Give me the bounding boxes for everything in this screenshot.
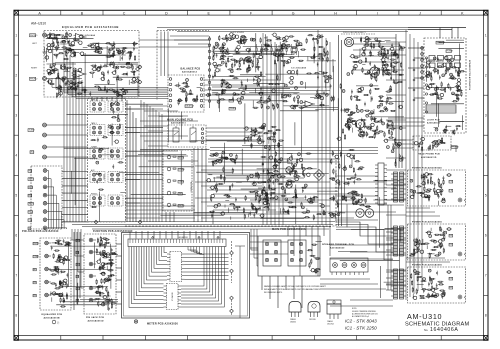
- svg-text:SPEAKER PCB A2015A5014: SPEAKER PCB A2015A5014: [468, 60, 471, 91]
- volume PCB pins: [201, 128, 203, 130]
- svg-text:1640406A: 1640406A: [430, 327, 458, 333]
- pin jack TAPE1: [43, 202, 47, 206]
- svg-text:A2015A5012: A2015A5012: [182, 71, 198, 74]
- pin jack lower PB1: [89, 250, 93, 254]
- power transistor TO-3 pair left: [356, 120, 364, 128]
- meter strip right pin drops: [188, 247, 196, 250]
- right mid horizontal wires: [335, 175, 378, 177]
- tuner input jack R: [43, 133, 47, 137]
- svg-text:POWER: POWER: [447, 51, 454, 53]
- signal bus vertical center-left: [140, 100, 142, 222]
- main PCB dashed edge top-left: [156, 31, 158, 101]
- svg-text:4: 4: [15, 153, 17, 157]
- power transistor TO-3 pair right: [356, 209, 364, 217]
- svg-text:2SD634: 2SD634: [290, 322, 296, 324]
- indicator LED PCB outline: [163, 150, 192, 211]
- muting transistors cluster: [255, 197, 256, 200]
- LED driver PHONO: [167, 203, 171, 207]
- TREBLE control boxed label: [229, 107, 235, 110]
- svg-text:A2015A5019B: A2015A5019B: [44, 317, 60, 320]
- LED driver TUNER: [167, 179, 171, 183]
- speaker relay RY1: [263, 240, 281, 266]
- lower pinjack extra parts: [104, 303, 105, 304]
- svg-text:BALANCE: BALANCE: [186, 105, 195, 108]
- stamp mark meter: [134, 320, 137, 323]
- relay driver cluster: [348, 125, 351, 128]
- svg-text:REPLACE SAFETY CRITICAL COMPON: REPLACE SAFETY CRITICAL COMPONENTS ONLY …: [264, 288, 320, 291]
- equalizer lower jack AUX: [45, 267, 49, 271]
- lower pinjack to meter wires: [116, 243, 122, 245]
- svg-text:B: B: [81, 11, 84, 15]
- signal bus junction dots: [140, 204, 141, 205]
- led column feed verticals: [165, 212, 167, 222]
- volume potentiometer left: [173, 128, 179, 142]
- equalizer extra parts right lower: [50, 83, 53, 84]
- svg-text:2: 2: [485, 73, 487, 77]
- svg-text:UNLESS OTHERWISE SPECIFIED:: UNLESS OTHERWISE SPECIFIED:: [352, 311, 377, 313]
- speaker line horizontals: [388, 117, 424, 119]
- svg-text:POWER: POWER: [179, 169, 186, 171]
- speaker PCB resistor parts: [458, 90, 461, 91]
- head phone attenuator parts: [422, 147, 423, 150]
- svg-text:RIGHT: RIGHT: [31, 68, 38, 70]
- vertical wires center bottom: [287, 226, 289, 236]
- power amp input pair cluster: [272, 126, 275, 127]
- svg-text:REC1: REC1: [29, 211, 34, 213]
- wires balance to trunk: [204, 79, 280, 81]
- tone amp IC2 cluster: [238, 41, 241, 44]
- edge connector column A2015A5016: [209, 36, 211, 108]
- svg-text:4: 4: [485, 153, 487, 157]
- svg-text:A2015A5011D: A2015A5011D: [421, 156, 437, 159]
- rail junction circles: [413, 59, 415, 61]
- pin jack IN: [43, 226, 47, 230]
- light PCB parts: [457, 126, 460, 127]
- power PCB 2 output box 1: [449, 234, 453, 237]
- grid ticks bottom: [60, 336, 62, 341]
- pin jack lower PB3: [89, 274, 93, 278]
- wire mesh center band: [138, 154, 186, 156]
- power transformer windings T2: [394, 226, 398, 256]
- head phone PCB outline: [413, 136, 451, 150]
- svg-text:SPEAKER TERMINAL PCB: SPEAKER TERMINAL PCB: [322, 243, 354, 246]
- svg-text:BALANCE PCB: BALANCE PCB: [181, 68, 201, 71]
- svg-text:3: 3: [485, 113, 487, 117]
- svg-text:J: J: [419, 11, 421, 15]
- svg-text:H: H: [334, 11, 337, 15]
- power PCB 1 fuse F1: [448, 174, 451, 177]
- svg-text:MAIN PCB A2015A5010A: MAIN PCB A2015A5010A: [272, 228, 306, 231]
- equalizer extra parts left half: [63, 40, 66, 43]
- speaker PCB inner pins: [425, 57, 427, 59]
- pin jack REC1: [43, 210, 47, 214]
- main pcb right vertical wires: [338, 35, 340, 226]
- power PCB 2 rectifier cluster: [412, 253, 415, 254]
- lower equalizer extra parts: [60, 299, 61, 302]
- meter PCB fan wiring right nested: [181, 247, 204, 286]
- output stage lower cluster: [258, 201, 260, 203]
- wires main to right rails: [386, 41, 406, 43]
- svg-text:PIN JACK PCB: PIN JACK PCB: [86, 316, 104, 319]
- svg-text:8: 8: [15, 314, 17, 318]
- svg-text:6: 6: [15, 234, 17, 238]
- display strip arrows: [152, 236, 154, 238]
- svg-text:SPEAKER SELECTOR: SPEAKER SELECTOR: [428, 60, 444, 63]
- svg-text:1: 1: [485, 33, 487, 37]
- junction diamond equalizer output R: [136, 79, 140, 83]
- power PCB 1 rectifier cluster: [428, 189, 431, 190]
- svg-text:LEFT: LEFT: [32, 43, 38, 45]
- svg-text:TAPE2: TAPE2: [29, 178, 34, 181]
- speaker relay RY2: [288, 240, 306, 266]
- main horizontal wire bus lower: [62, 221, 335, 223]
- svg-text:LED METER: LED METER: [178, 237, 188, 239]
- pin jack TAPE2: [43, 177, 47, 181]
- wires to power pcb 2: [386, 231, 393, 233]
- volume to bus verticals: [193, 148, 195, 222]
- diode bridge D1: [314, 170, 325, 181]
- pin jack to function wires: [62, 171, 88, 173]
- PHONO label right: [30, 77, 36, 80]
- svg-text:POWER PCB A2015A5060: POWER PCB A2015A5060: [412, 221, 443, 224]
- svg-text:PB2: PB2: [34, 295, 37, 297]
- rec selector switch cluster: [222, 151, 225, 154]
- balance PCB outline: [168, 75, 204, 112]
- power PCB 2 fuse F2: [448, 228, 451, 231]
- BASS control boxed label: [229, 99, 234, 102]
- function switch module TAPE 1: [90, 125, 105, 136]
- svg-text:POWER PCB A2020S0040: POWER PCB A2020S0040: [412, 167, 442, 170]
- balance PCB connector pins right: [200, 78, 203, 81]
- wire mesh top center: [280, 110, 319, 112]
- pin jack lower REC2: [89, 262, 93, 266]
- power PCB 2 output box 2: [449, 243, 453, 246]
- junction diamonds left bus: [138, 65, 142, 69]
- svg-text:5: 5: [15, 194, 17, 198]
- extra trunk verticals left-center: [126, 100, 128, 222]
- power transistor Q1: [286, 167, 292, 173]
- power transformer windings T3: [394, 269, 398, 299]
- bias network cluster: [323, 211, 324, 214]
- svg-text:RECOMMENDED PARTS.: RECOMMENDED PARTS.: [264, 291, 283, 294]
- power PCB 1 output box 1: [449, 180, 453, 183]
- equalizer lower jack PHONO: [45, 241, 49, 245]
- corner registration mark bottom-left: [14, 336, 19, 341]
- svg-text:3: 3: [15, 113, 17, 117]
- headphone jack wires: [451, 145, 456, 147]
- bus drop wires to balance connector: [160, 32, 162, 77]
- ground symbol phono input: [44, 47, 46, 52]
- speaker selector switch boxes row2: [429, 63, 435, 68]
- edge connector bar main-to-power: [378, 163, 384, 205]
- power PCB 2 output jack: [458, 252, 462, 256]
- power PCB 3 fuse F3: [448, 271, 451, 274]
- diagonal feed wires top center: [170, 35, 209, 37]
- equalizer output wire bundle: [51, 78, 53, 87]
- function switch module AUX: [90, 172, 105, 183]
- svg-text:TUNER: TUNER: [29, 130, 36, 132]
- aux input jack L: [43, 145, 47, 149]
- power pcb3 extra parts: [436, 294, 439, 297]
- meter PCB right edge wires: [231, 241, 233, 251]
- pin jack lower IN5: [89, 298, 93, 302]
- meter PCB right edge connectors: [230, 251, 234, 255]
- function switch module PHONO: [90, 195, 105, 206]
- function switch module TUNER: [90, 148, 105, 159]
- rail dots extra: [405, 51, 406, 52]
- svg-text:A: A: [38, 11, 41, 15]
- long control bus wires top: [157, 27, 408, 29]
- svg-text:POWER PCB A2015A5050: POWER PCB A2015A5050: [412, 264, 443, 267]
- top bus extension to speaker pcb: [408, 27, 466, 29]
- speaker terminal strip: [330, 258, 368, 272]
- vertical wires top equalizer to function: [91, 97, 93, 101]
- equalizer supply decoupling parts: [117, 89, 118, 90]
- speaker pcb led circles: [458, 71, 461, 74]
- balance potentiometer parts: [196, 87, 197, 88]
- svg-text:A2015A5010D: A2015A5010D: [88, 320, 104, 323]
- svg-text:ⓔ: ⓔ: [57, 320, 60, 324]
- svg-text:2SC1345: 2SC1345: [309, 319, 316, 321]
- svg-text:TUNER: TUNER: [179, 181, 185, 183]
- svg-text:8: 8: [485, 314, 487, 318]
- wire mesh right column: [369, 45, 402, 47]
- svg-text:G: G: [292, 11, 295, 15]
- op-amp IC1a left channel: [76, 34, 85, 41]
- pin jack lower OUT4: [89, 286, 93, 290]
- svg-text:A2015A5020: A2015A5020: [330, 246, 345, 249]
- corner registration mark top-left: [14, 10, 19, 15]
- svg-text:REC2: REC2: [29, 187, 34, 189]
- long vertical wires left bus: [63, 44, 65, 222]
- pin jack OUT: [43, 218, 47, 222]
- corner registration mark top-right: [484, 10, 489, 15]
- relay coil parts: [316, 269, 319, 270]
- power pcb1 extra parts: [411, 195, 414, 198]
- svg-text:IC2 - STK 8043: IC2 - STK 8043: [345, 319, 377, 324]
- right side vertical feeders: [395, 34, 397, 168]
- right column parts sparse: [398, 106, 400, 108]
- trunk junction dots: [263, 120, 264, 121]
- left bus elbows to equalizer: [47, 34, 65, 36]
- svg-text:6: 6: [485, 234, 487, 238]
- power PCB 1 outline: [408, 170, 466, 206]
- svg-text:A2015A5011: A2015A5011: [171, 122, 187, 125]
- op-amp IC1b right channel: [76, 71, 85, 78]
- function modules extra parts: [110, 151, 112, 153]
- svg-text:PIN JACK PCB A2015A5010: PIN JACK PCB A2015A5010: [22, 230, 59, 233]
- svg-text:AM-U310: AM-U310: [407, 312, 442, 321]
- svg-text:TAPE1: TAPE1: [29, 202, 34, 205]
- equalizer left channel RIAA network: [95, 51, 98, 52]
- svg-text:PB1: PB1: [29, 195, 32, 197]
- svg-text:C: C: [123, 11, 126, 15]
- mid-left extra horizontals: [125, 205, 195, 207]
- TUNER label: [28, 129, 34, 132]
- speaker pcb extra parts: [429, 85, 432, 88]
- power transistor Q2: [286, 182, 292, 188]
- speaker terminal PCB outline: [258, 236, 320, 276]
- svg-text:TREBLE: TREBLE: [230, 108, 237, 110]
- connector circles column right: [421, 47, 424, 50]
- svg-text:AUX: AUX: [31, 151, 35, 154]
- svg-text:2SC1904: 2SC1904: [327, 324, 334, 326]
- transistor package 2SC1345: [308, 302, 320, 313]
- wire mesh equalizer: [113, 76, 138, 78]
- horizontal right lower wires: [330, 244, 393, 246]
- horizontal wires function to led column: [125, 103, 163, 105]
- equalizer lower jack PB2: [45, 293, 49, 297]
- svg-text:METER PCB A20X3030: METER PCB A20X3030: [147, 322, 178, 325]
- power PCB 1 output jack: [458, 198, 462, 202]
- wires lower blocks to bus: [71, 229, 73, 240]
- function switch module TAPE 2: [90, 101, 105, 112]
- svg-text:7: 7: [15, 274, 17, 278]
- transistor package TO-220: [327, 300, 341, 304]
- junction diamond equalizer output L: [136, 67, 140, 71]
- meter PCB fan wiring left nested: [164, 247, 167, 253]
- svg-text:AUX: AUX: [91, 169, 95, 172]
- power pcb2 extra parts: [417, 249, 418, 252]
- svg-text:TUNER: TUNER: [34, 256, 40, 258]
- BALANCE control label: [185, 105, 193, 108]
- vertical trunk wires center: [262, 33, 264, 225]
- long horizontal wires upper mid: [212, 86, 330, 88]
- wires volume to trunk: [206, 127, 263, 129]
- power PCB 3 output box 1: [449, 277, 453, 280]
- lamp housing hatched: [426, 105, 456, 113]
- tone IC2 lower row parts: [215, 65, 218, 68]
- power PCB 3 output jack: [458, 295, 462, 299]
- pin jack PB1: [43, 193, 47, 197]
- function PCB outline: [88, 98, 126, 222]
- svg-text:2: 2: [15, 73, 17, 77]
- LED driver TAPE: [167, 191, 171, 195]
- pin jack PB2: [43, 169, 47, 173]
- LED driver SPKRS: [167, 155, 171, 159]
- svg-text:A2015A5015: A2015A5015: [190, 182, 193, 192]
- svg-text:ALL RESISTORS IN OHMS 1/4W ±5%: ALL RESISTORS IN OHMS 1/4W ±5%: [352, 312, 378, 315]
- svg-text:FOR U.S. SECOND MODEL P1: FOR U.S. SECOND MODEL P1: [343, 32, 366, 34]
- long horizontal wires mid band: [210, 147, 378, 149]
- svg-text:NOTE:: NOTE:: [352, 308, 357, 310]
- svg-text:PHONO: PHONO: [91, 193, 98, 195]
- meter IC1 right pin wires: [185, 253, 229, 255]
- PHONES jack box: [451, 146, 457, 149]
- wire mesh bottom left blocks: [62, 286, 108, 288]
- svg-text:PB1: PB1: [34, 282, 37, 284]
- bus extension to power blocks: [336, 222, 393, 236]
- rec out resistor ladder: [211, 197, 212, 200]
- wires right of meter going right: [250, 235, 258, 237]
- AUX label: [30, 151, 34, 154]
- equalizer lower jack PB1: [45, 280, 49, 284]
- loudness network cluster: [228, 85, 231, 88]
- svg-text:PHONO: PHONO: [30, 35, 38, 37]
- wires power blocks interconnect: [406, 207, 430, 209]
- wire mesh speaker pcb: [446, 39, 464, 41]
- svg-text:EQUALIZER PCB: EQUALIZER PCB: [42, 313, 63, 316]
- AC line filter cluster: [375, 38, 378, 41]
- vertical feed right power: [387, 205, 389, 290]
- tone flat amp cluster right: [290, 57, 293, 58]
- tuner input jack L: [43, 123, 47, 127]
- pin jack REC2: [43, 185, 47, 189]
- equalizer right channel components: [73, 71, 76, 74]
- power PCB 3 outline: [408, 267, 466, 303]
- speaker selector switch cluster: [450, 73, 453, 76]
- power switch circle: [370, 67, 380, 77]
- svg-text:2SB634: 2SB634: [290, 319, 296, 321]
- op-amp IC3b: [252, 130, 260, 136]
- horizontal wires function column to volume area: [140, 105, 168, 107]
- power PCB 1 output box 2: [449, 189, 453, 192]
- svg-text:WARNING: INDICATED SAFETY CRIT: WARNING: INDICATED SAFETY CRITICAL COMPO…: [264, 285, 326, 288]
- equalizer PCB outline: [44, 31, 139, 98]
- wires equalizer block to main top: [139, 39, 209, 41]
- wires to power pcb 3: [386, 271, 393, 273]
- feedback network cluster: [384, 107, 387, 110]
- PHONO label left: [30, 34, 36, 37]
- wires meter to speaker terminal: [250, 229, 252, 250]
- bottom horizontal wires speaker terminal to power: [320, 278, 370, 280]
- driver stage cluster: [286, 153, 287, 154]
- speaker selector switch boxes row1: [429, 56, 435, 61]
- speaker PCB wires: [408, 47, 424, 49]
- aux input jack R: [43, 155, 47, 159]
- speaker relay transformer circle: [344, 37, 353, 46]
- main volume PCB outline: [168, 125, 206, 147]
- power PCB 3 rectifier cluster: [427, 283, 429, 285]
- headphone feed wires: [392, 139, 413, 141]
- equalizer left channel components: [62, 36, 65, 39]
- svg-text:1: 1: [15, 33, 17, 37]
- vertical trunk wires center-right: [317, 30, 319, 225]
- svg-text:PHONO: PHONO: [34, 243, 40, 245]
- svg-text:IC2 STK459: IC2 STK459: [233, 32, 245, 34]
- speaker PCB outline: [424, 38, 466, 133]
- equalizer right channel RIAA network: [132, 78, 135, 81]
- corner registration mark bottom-right: [484, 336, 489, 341]
- pin jack lower REC0: [89, 238, 93, 242]
- wires tuner aux to function: [47, 124, 89, 126]
- output stage lower wires: [250, 181, 330, 183]
- AC area cluster: [387, 51, 388, 54]
- svg-text:IC1 - STK 2250: IC1 - STK 2250: [345, 326, 377, 331]
- svg-text:IC3 LM4500AHA: IC3 LM4500AHA: [291, 67, 307, 70]
- svg-text:I: I: [377, 11, 378, 15]
- vertical power rails right: [405, 30, 407, 300]
- LED meter display strip: [128, 239, 226, 247]
- svg-text:TAPE 1: TAPE 1: [91, 122, 97, 125]
- power PCB 3 output box 2: [449, 286, 453, 289]
- svg-text:HEAD PHONE PCB: HEAD PHONE PCB: [418, 153, 440, 156]
- pin jack PCB lower outline: [84, 234, 116, 314]
- svg-text:K: K: [461, 11, 464, 15]
- power PCB 2 outline: [408, 224, 466, 260]
- svg-text:E: E: [207, 11, 210, 15]
- svg-text:PHONES: PHONES: [452, 147, 460, 149]
- svg-text:7: 7: [485, 274, 487, 278]
- SPEAKER indicator box: [436, 41, 444, 44]
- tone control cluster: [284, 84, 287, 87]
- right column parts lower: [397, 144, 400, 147]
- transistor package 2SB634: [289, 302, 301, 313]
- svg-text:EQUALIZER PCB A2015A5019B: EQUALIZER PCB A2015A5019B: [62, 25, 119, 29]
- svg-text:No.: No.: [424, 328, 428, 332]
- POWER indicator box: [446, 50, 451, 53]
- equalizer lower jack TUNER: [45, 254, 49, 258]
